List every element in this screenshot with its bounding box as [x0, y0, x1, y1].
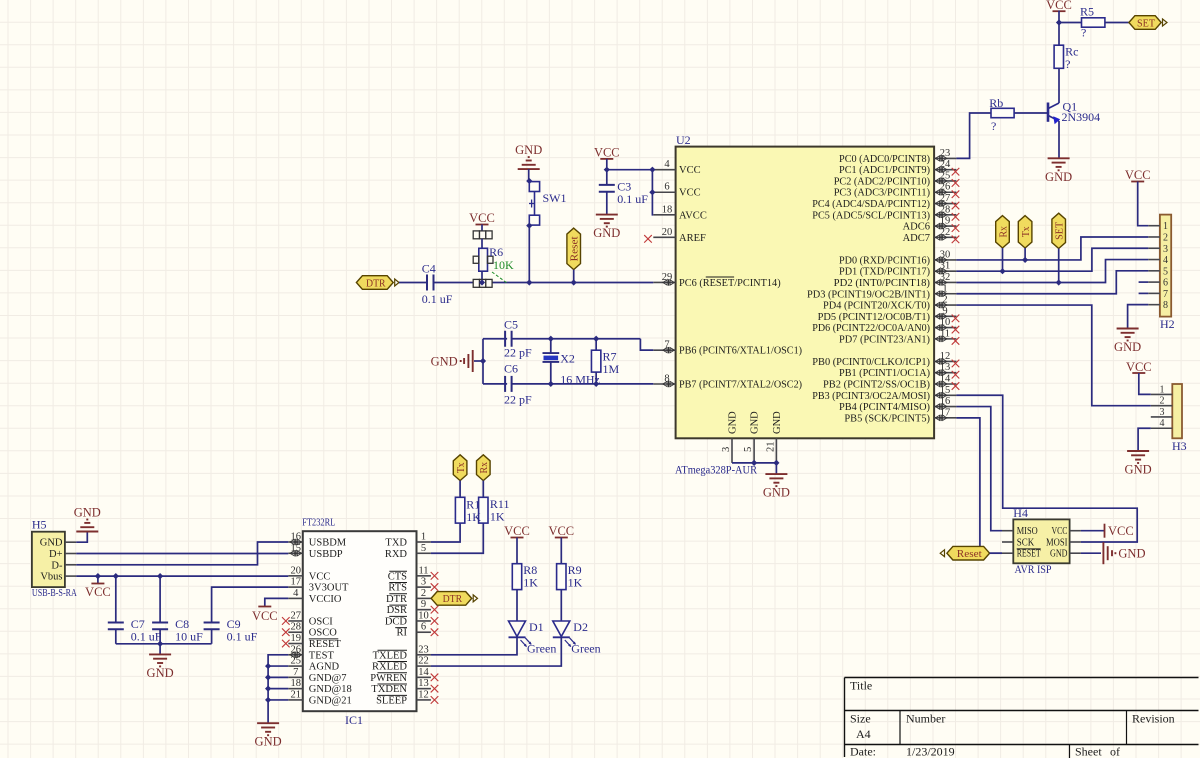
- svg-text:RESET: RESET: [1017, 549, 1041, 560]
- svg-text:Rx: Rx: [478, 462, 490, 474]
- svg-text:11: 11: [418, 565, 428, 576]
- svg-text:VCC: VCC: [679, 188, 701, 199]
- svg-text:27: 27: [291, 610, 302, 621]
- svg-text:Reset: Reset: [569, 236, 581, 261]
- svg-text:3: 3: [1160, 407, 1165, 418]
- svg-text:AREF: AREF: [679, 233, 706, 244]
- svg-text:FT232RL: FT232RL: [302, 517, 335, 529]
- svg-text:18: 18: [291, 678, 302, 689]
- svg-text:TXDEN: TXDEN: [371, 684, 407, 695]
- svg-text:4: 4: [1163, 255, 1168, 266]
- svg-text:?: ?: [1065, 57, 1070, 71]
- svg-text:1: 1: [1160, 384, 1165, 395]
- svg-text:USB-B-S-RA: USB-B-S-RA: [32, 588, 77, 599]
- svg-text:PC1 (ADC1/PCINT9): PC1 (ADC1/PCINT9): [839, 165, 930, 176]
- svg-text:17: 17: [291, 577, 302, 588]
- svg-text:0.1 uF: 0.1 uF: [227, 630, 258, 644]
- svg-text:22 pF: 22 pF: [504, 346, 532, 360]
- svg-text:9: 9: [421, 599, 426, 610]
- svg-text:ADC6: ADC6: [903, 222, 930, 233]
- svg-text:2N3904: 2N3904: [1062, 110, 1101, 124]
- svg-text:GND: GND: [1114, 340, 1141, 354]
- svg-text:Green: Green: [571, 642, 600, 656]
- svg-text:Reset: Reset: [957, 548, 982, 560]
- svg-text:PB6 (PCINT6/XTAL1/OSC1): PB6 (PCINT6/XTAL1/OSC1): [679, 346, 803, 357]
- svg-text:PD4 (PCINT20/XCK/T0): PD4 (PCINT20/XCK/T0): [823, 301, 930, 312]
- svg-text:5: 5: [1163, 266, 1168, 277]
- svg-text:PB1 (PCINT1/OC1A): PB1 (PCINT1/OC1A): [839, 368, 930, 379]
- svg-text:21: 21: [291, 689, 302, 700]
- svg-text:?: ?: [1081, 26, 1086, 40]
- svg-text:PC2 (ADC2/PCINT10): PC2 (ADC2/PCINT10): [834, 176, 931, 187]
- svg-text:Tx: Tx: [455, 462, 467, 473]
- svg-text:3V3OUT: 3V3OUT: [309, 583, 349, 594]
- svg-text:7: 7: [1163, 289, 1168, 300]
- svg-text:PC6 (RESET/PCINT14): PC6 (RESET/PCINT14): [679, 278, 781, 289]
- svg-text:12: 12: [418, 689, 429, 700]
- svg-text:PD7 (PCINT23/AN1): PD7 (PCINT23/AN1): [839, 334, 930, 345]
- svg-text:TXLED: TXLED: [373, 650, 408, 661]
- svg-text:VCC: VCC: [1052, 526, 1068, 537]
- svg-text:25: 25: [291, 656, 302, 667]
- svg-text:19: 19: [291, 633, 302, 644]
- svg-text:RTS: RTS: [388, 583, 407, 594]
- svg-text:10 uF: 10 uF: [175, 630, 203, 644]
- svg-text:8: 8: [1163, 300, 1168, 311]
- svg-text:PD1 (TXD/PCINT17): PD1 (TXD/PCINT17): [839, 267, 930, 278]
- svg-text:3: 3: [721, 447, 732, 452]
- svg-text:6: 6: [1163, 278, 1168, 289]
- svg-text:1K: 1K: [490, 509, 505, 523]
- svg-text:SW1: SW1: [543, 191, 567, 205]
- svg-text:Number: Number: [906, 712, 945, 726]
- svg-text:PD6 (PCINT22/OC0A/AN0): PD6 (PCINT22/OC0A/AN0): [812, 323, 930, 334]
- svg-text:Title: Title: [850, 679, 872, 693]
- svg-text:PD5 (PCINT12/OC0B/T1): PD5 (PCINT12/OC0B/T1): [818, 312, 931, 323]
- svg-text:0.1 uF: 0.1 uF: [617, 192, 648, 206]
- svg-text:VCC: VCC: [469, 211, 495, 225]
- svg-text:GND: GND: [147, 666, 174, 680]
- svg-text:D2: D2: [573, 620, 588, 634]
- svg-text:PD0 (RXD/PCINT16): PD0 (RXD/PCINT16): [839, 255, 930, 266]
- svg-text:OSCI: OSCI: [309, 616, 333, 627]
- svg-text:5: 5: [743, 447, 754, 452]
- svg-text:CTS: CTS: [388, 571, 407, 582]
- svg-text:PB7 (PCINT7/XTAL2/OSC2): PB7 (PCINT7/XTAL2/OSC2): [679, 380, 803, 391]
- svg-text:MOSI: MOSI: [1046, 538, 1068, 549]
- svg-text:VCC: VCC: [1126, 360, 1152, 374]
- svg-text:6: 6: [664, 182, 669, 193]
- svg-text:R5: R5: [1080, 5, 1094, 19]
- svg-text:D-: D-: [51, 560, 63, 571]
- svg-text:Vbus: Vbus: [40, 572, 62, 583]
- svg-text:AVCC: AVCC: [679, 210, 707, 221]
- svg-text:20: 20: [662, 227, 673, 238]
- svg-text:GND: GND: [255, 735, 282, 749]
- svg-text:Revision: Revision: [1132, 712, 1175, 726]
- svg-text:X2: X2: [560, 352, 575, 366]
- svg-text:14: 14: [418, 667, 429, 678]
- svg-text:D+: D+: [49, 549, 63, 560]
- svg-text:H3: H3: [1172, 439, 1187, 453]
- svg-text:AGND: AGND: [309, 662, 340, 673]
- svg-text:1K: 1K: [568, 576, 583, 590]
- svg-text:GND: GND: [1125, 463, 1152, 477]
- svg-text:28: 28: [291, 622, 302, 633]
- svg-text:23: 23: [418, 644, 429, 655]
- svg-text:PB2 (PCINT2/SS/OC1B): PB2 (PCINT2/SS/OC1B): [823, 380, 930, 391]
- svg-text:GND: GND: [772, 411, 783, 434]
- svg-text:GND: GND: [431, 355, 458, 369]
- svg-text:VCC: VCC: [548, 524, 574, 538]
- svg-text:1: 1: [421, 532, 426, 543]
- svg-text:DTR: DTR: [386, 594, 407, 605]
- svg-text:RI: RI: [397, 628, 408, 639]
- svg-text:13: 13: [418, 678, 429, 689]
- svg-text:4: 4: [664, 159, 670, 170]
- svg-text:7: 7: [293, 667, 298, 678]
- svg-text:Rx: Rx: [997, 226, 1009, 238]
- svg-text:Green: Green: [527, 642, 556, 656]
- svg-text:10K: 10K: [493, 258, 514, 272]
- svg-text:4: 4: [293, 588, 299, 599]
- svg-text:VCC: VCC: [1046, 0, 1072, 12]
- svg-text:C4: C4: [422, 262, 436, 276]
- svg-text:2: 2: [421, 588, 426, 599]
- svg-text:R6: R6: [489, 245, 503, 259]
- svg-text:VCC: VCC: [1125, 168, 1151, 182]
- svg-text:VCC: VCC: [594, 146, 620, 160]
- svg-text:5: 5: [421, 543, 426, 554]
- svg-text:USBDP: USBDP: [309, 549, 343, 560]
- svg-text:AVR ISP: AVR ISP: [1015, 564, 1052, 576]
- svg-text:PC0 (ADC0/PCINT8): PC0 (ADC0/PCINT8): [839, 154, 930, 165]
- svg-text:DTR: DTR: [366, 277, 386, 289]
- svg-text:SET: SET: [1137, 17, 1155, 29]
- svg-text:PB4 (PCINT4/MISO): PB4 (PCINT4/MISO): [839, 402, 930, 413]
- svg-text:H5: H5: [32, 518, 47, 532]
- svg-text:TEST: TEST: [309, 650, 335, 661]
- svg-text:USBDM: USBDM: [309, 538, 347, 549]
- svg-text:GND: GND: [750, 411, 761, 434]
- svg-text:GND: GND: [728, 411, 739, 434]
- svg-text:C6: C6: [504, 362, 518, 376]
- svg-text:GND@7: GND@7: [309, 673, 347, 684]
- svg-text:Rb: Rb: [989, 96, 1003, 110]
- svg-text:GND: GND: [74, 506, 101, 520]
- svg-text:PB5 (SCK/PCINT5): PB5 (SCK/PCINT5): [844, 413, 930, 424]
- svg-text:21: 21: [765, 442, 776, 453]
- svg-text:GND@18: GND@18: [309, 684, 352, 695]
- svg-text:3: 3: [1163, 244, 1168, 255]
- svg-text:GND: GND: [515, 143, 542, 157]
- svg-text:GND: GND: [593, 226, 620, 240]
- svg-text:PB0 (PCINT0/CLKO/ICP1): PB0 (PCINT0/CLKO/ICP1): [812, 357, 930, 368]
- svg-text:VCC: VCC: [309, 571, 331, 582]
- svg-text:ATmega328P-AUR: ATmega328P-AUR: [675, 465, 757, 477]
- svg-text:VCC: VCC: [504, 524, 530, 538]
- svg-text:6: 6: [421, 622, 426, 633]
- svg-text:MISO: MISO: [1017, 526, 1038, 537]
- svg-text:20: 20: [291, 565, 302, 576]
- svg-text:SCK: SCK: [1017, 538, 1035, 549]
- svg-text:1K: 1K: [466, 510, 481, 524]
- svg-text:Size: Size: [850, 712, 871, 726]
- svg-text:0.1 uF: 0.1 uF: [131, 630, 162, 644]
- svg-text:GND: GND: [763, 486, 790, 500]
- svg-text:PD2 (INT0/PCINT18): PD2 (INT0/PCINT18): [834, 278, 931, 289]
- svg-text:VCCIO: VCCIO: [309, 594, 342, 605]
- svg-text:GND: GND: [1118, 547, 1145, 561]
- svg-text:PC5 (ADC5/SCL/PCINT13): PC5 (ADC5/SCL/PCINT13): [812, 210, 930, 221]
- svg-text:PC4 (ADC4/SDA/PCINT12): PC4 (ADC4/SDA/PCINT12): [812, 199, 930, 210]
- svg-text:2: 2: [1160, 396, 1165, 407]
- svg-text:OSCO: OSCO: [309, 628, 337, 639]
- svg-text:GND: GND: [1045, 170, 1072, 184]
- svg-text:PD3 (PCINT19/OC2B/INT1): PD3 (PCINT19/OC2B/INT1): [807, 289, 931, 300]
- svg-text:DTR: DTR: [443, 593, 463, 605]
- svg-text:PB3 (PCINT3/OC2A/MOSI): PB3 (PCINT3/OC2A/MOSI): [812, 391, 930, 402]
- svg-text:22: 22: [418, 656, 429, 667]
- svg-text:22 pF: 22 pF: [504, 393, 532, 407]
- svg-text:RXD: RXD: [385, 549, 408, 560]
- svg-text:VCC: VCC: [85, 585, 111, 599]
- svg-text:?: ?: [991, 119, 996, 133]
- svg-text:GND@21: GND@21: [309, 695, 352, 706]
- svg-text:PC3 (ADC3/PCINT11): PC3 (ADC3/PCINT11): [834, 188, 931, 199]
- svg-text:SET: SET: [1054, 222, 1066, 240]
- svg-text:1/23/2019: 1/23/2019: [906, 745, 955, 758]
- svg-text:1M: 1M: [602, 362, 619, 376]
- svg-text:0.1 uF: 0.1 uF: [422, 292, 453, 306]
- svg-text:10: 10: [418, 610, 429, 621]
- svg-text:of: of: [1110, 745, 1120, 758]
- svg-text:Sheet: Sheet: [1075, 745, 1102, 758]
- svg-text:18: 18: [662, 204, 673, 215]
- svg-text:DCD: DCD: [385, 616, 408, 627]
- svg-text:VCC: VCC: [1108, 524, 1134, 538]
- svg-text:RESET: RESET: [309, 639, 342, 650]
- svg-text:U2: U2: [676, 133, 691, 147]
- svg-text:RXLED: RXLED: [372, 662, 407, 673]
- svg-text:C5: C5: [504, 318, 518, 332]
- svg-text:A4: A4: [856, 727, 871, 741]
- svg-text:SLEEP: SLEEP: [376, 695, 407, 706]
- svg-text:PWREN: PWREN: [370, 673, 407, 684]
- svg-text:Tx: Tx: [1020, 226, 1032, 237]
- svg-text:IC1: IC1: [345, 713, 363, 727]
- svg-text:1: 1: [1163, 221, 1168, 232]
- svg-text:DSR: DSR: [387, 605, 407, 616]
- svg-text:H2: H2: [1160, 317, 1175, 331]
- svg-text:VCC: VCC: [679, 165, 701, 176]
- svg-text:ADC7: ADC7: [903, 233, 930, 244]
- svg-text:3: 3: [421, 577, 426, 588]
- svg-text:GND: GND: [40, 538, 63, 549]
- svg-text:2: 2: [1163, 232, 1168, 243]
- svg-text:D1: D1: [529, 620, 544, 634]
- svg-text:GND: GND: [1050, 549, 1068, 560]
- svg-text:4: 4: [1160, 418, 1165, 429]
- svg-text:VCC: VCC: [252, 609, 278, 623]
- svg-text:TXD: TXD: [385, 538, 407, 549]
- svg-text:Date:: Date:: [850, 745, 876, 758]
- svg-text:1K: 1K: [523, 576, 538, 590]
